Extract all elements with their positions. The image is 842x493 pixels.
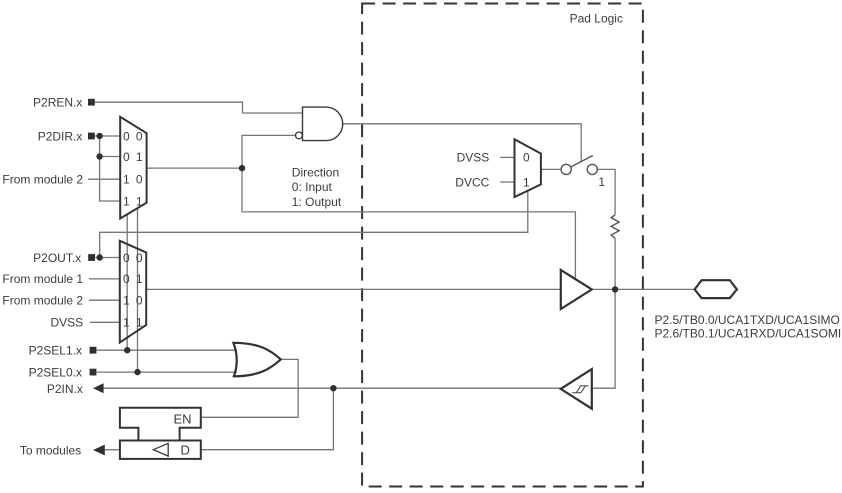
- wire pad node to Schmitt trigger input: [592, 289, 615, 388]
- wire DVCC stub to mux U3 input 1: [500, 181, 514, 183]
- svg-text:1 0: 1 0: [123, 294, 144, 308]
- junction dot direction node: [239, 165, 245, 171]
- pin name labels: [655, 313, 842, 341]
- mux U2 P2OUT select trapezoid: [120, 241, 146, 343]
- NAND inverted input bubble: [296, 132, 303, 139]
- Pad Logic dashed boundary box: [362, 4, 643, 487]
- svg-text:1 0: 1 0: [123, 172, 144, 186]
- svg-text:P2SEL0.x: P2SEL0.x: [29, 365, 82, 379]
- svg-text:P2SEL1.x: P2SEL1.x: [29, 344, 82, 358]
- input terminal square P2SEL0.x: [90, 369, 97, 376]
- svg-text:P2.6/TB0.1/UCA1RXD/UCA1SOMI: P2.6/TB0.1/UCA1RXD/UCA1SOMI: [655, 327, 842, 341]
- wire NAND output to switch control: [343, 124, 582, 162]
- mux U2 row labels: [123, 251, 144, 330]
- svg-text:EN: EN: [174, 411, 192, 426]
- junction dot P2DIR row01: [96, 153, 102, 159]
- svg-text:To modules: To modules: [20, 443, 81, 457]
- switch S1 contact circles: [561, 164, 571, 174]
- svg-text:0: 0: [523, 151, 530, 165]
- wire select line P2SEL0 to both muxes: [137, 208, 139, 372]
- wire P2SEL0.x to OR gate: [97, 371, 237, 373]
- wire OR gate output to EN latch: [201, 359, 298, 417]
- input terminal square P2OUT.x: [88, 254, 95, 261]
- wire DVSS to mux U2 row 11: [90, 321, 120, 323]
- wire P2SEL1.x to OR gate: [97, 349, 237, 351]
- svg-text:P2REN.x: P2REN.x: [33, 96, 82, 110]
- junction dot P2SEL0: [134, 369, 140, 375]
- arrow To modules output: [93, 445, 105, 456]
- pad hexagon P2.5: [695, 280, 737, 298]
- wire mux U2 output to output buffer input: [146, 288, 561, 290]
- wire D latch output to To modules: [105, 449, 120, 451]
- NAND gate U4 (AND with inverted input): [303, 107, 343, 141]
- wire select line P2SEL1 to both muxes: [126, 214, 128, 350]
- EN latch box: [120, 408, 201, 441]
- svg-text:From module 2: From module 2: [2, 173, 83, 187]
- input terminal square P2SEL1.x: [90, 347, 97, 354]
- wire switch to resistor R1: [597, 169, 615, 214]
- wire mux U1 output (Direction): [147, 167, 242, 169]
- D latch triangle: [153, 443, 168, 456]
- Schmitt hysteresis symbol: [572, 386, 588, 393]
- wire resistor R1 to pad node: [614, 239, 616, 290]
- wire P2DIR vertical to row 01: [99, 136, 101, 157]
- junction dot P2OUT: [97, 254, 103, 260]
- wire From module 2 to mux U2 row 10: [89, 299, 120, 301]
- mux U3 pull-up/down select trapezoid: [515, 139, 541, 197]
- wire P2OUT.x to mux U2 row 00: [95, 257, 120, 259]
- D latch box: [120, 441, 201, 459]
- svg-text:From module 2: From module 2: [2, 294, 83, 308]
- wire P2DIR to mux U1 row 11: [100, 157, 121, 202]
- wire to mux U1 row 01: [100, 156, 121, 158]
- wire From module 2 to mux U1 row 10: [88, 178, 120, 180]
- switch S1 lever: [571, 156, 593, 167]
- resistor R1 zigzag: [611, 215, 619, 239]
- svg-text:1: Output: 1: Output: [292, 195, 342, 209]
- input terminal square P2DIR.x: [88, 133, 95, 140]
- svg-text:D: D: [181, 442, 190, 457]
- wire DVSS stub to mux U3 input 0: [500, 156, 514, 158]
- svg-text:DVCC: DVCC: [455, 175, 489, 189]
- svg-text:0 1: 0 1: [123, 150, 144, 164]
- arrow P2IN.x output: [93, 383, 104, 393]
- svg-text:From module 1: From module 1: [2, 272, 83, 286]
- svg-text:DVSS: DVSS: [457, 151, 490, 165]
- svg-text:P2.5/TB0.0/UCA1TXD/UCA1SIMO: P2.5/TB0.0/UCA1TXD/UCA1SIMO: [655, 313, 840, 327]
- wire P2IN node to D latch input: [201, 388, 334, 450]
- mux U3 labels 0 and 1: [523, 151, 530, 190]
- pad node junction dot: [612, 286, 618, 292]
- svg-text:1: 1: [523, 175, 530, 189]
- mux U1 P2DIR select trapezoid: [120, 117, 146, 219]
- svg-text:DVSS: DVSS: [51, 316, 84, 330]
- wire direction node to NAND inverted input: [242, 135, 296, 168]
- Direction annotation text: [292, 165, 342, 208]
- input terminal square P2REN.x: [88, 99, 95, 106]
- wire From module 1 to mux U2 row 01: [89, 278, 120, 280]
- mux U1 row labels: [123, 129, 144, 208]
- junction dot P2SEL1: [124, 347, 130, 353]
- wire direction node to output buffer enable: [242, 168, 575, 279]
- svg-text:0 1: 0 1: [123, 272, 144, 286]
- svg-text:P2OUT.x: P2OUT.x: [33, 251, 81, 265]
- wire mux U3 output to switch: [541, 168, 561, 170]
- wire output buffer to pad: [592, 288, 695, 290]
- wire P2OUT node to pull mux U3 select: [100, 191, 528, 258]
- junction dot P2IN branch: [330, 385, 336, 391]
- wire P2DIR.x to mux U1 row 00: [95, 135, 120, 137]
- svg-text:0 0: 0 0: [123, 251, 144, 265]
- signal name labels left column: [2, 96, 83, 458]
- svg-text:1 1: 1 1: [123, 316, 144, 330]
- svg-text:0 0: 0 0: [123, 129, 144, 143]
- Schmitt trigger U6 input buffer triangle: [561, 369, 592, 409]
- svg-text:P2DIR.x: P2DIR.x: [38, 129, 83, 143]
- wire P2REN.x to NAND top input: [95, 102, 303, 113]
- junction dot P2DIR row00: [96, 133, 102, 139]
- svg-text:P2IN.x: P2IN.x: [47, 382, 83, 396]
- OR gate U7: [233, 343, 280, 377]
- wire Schmitt output P2IN.x line: [103, 387, 560, 389]
- svg-text:1 1: 1 1: [123, 194, 144, 208]
- svg-text:Pad Logic: Pad Logic: [570, 12, 623, 26]
- svg-text:Direction: Direction: [292, 165, 339, 179]
- svg-text:0: Input: 0: Input: [292, 180, 333, 194]
- svg-text:1: 1: [598, 175, 605, 189]
- output buffer U5 triangle: [561, 270, 592, 309]
